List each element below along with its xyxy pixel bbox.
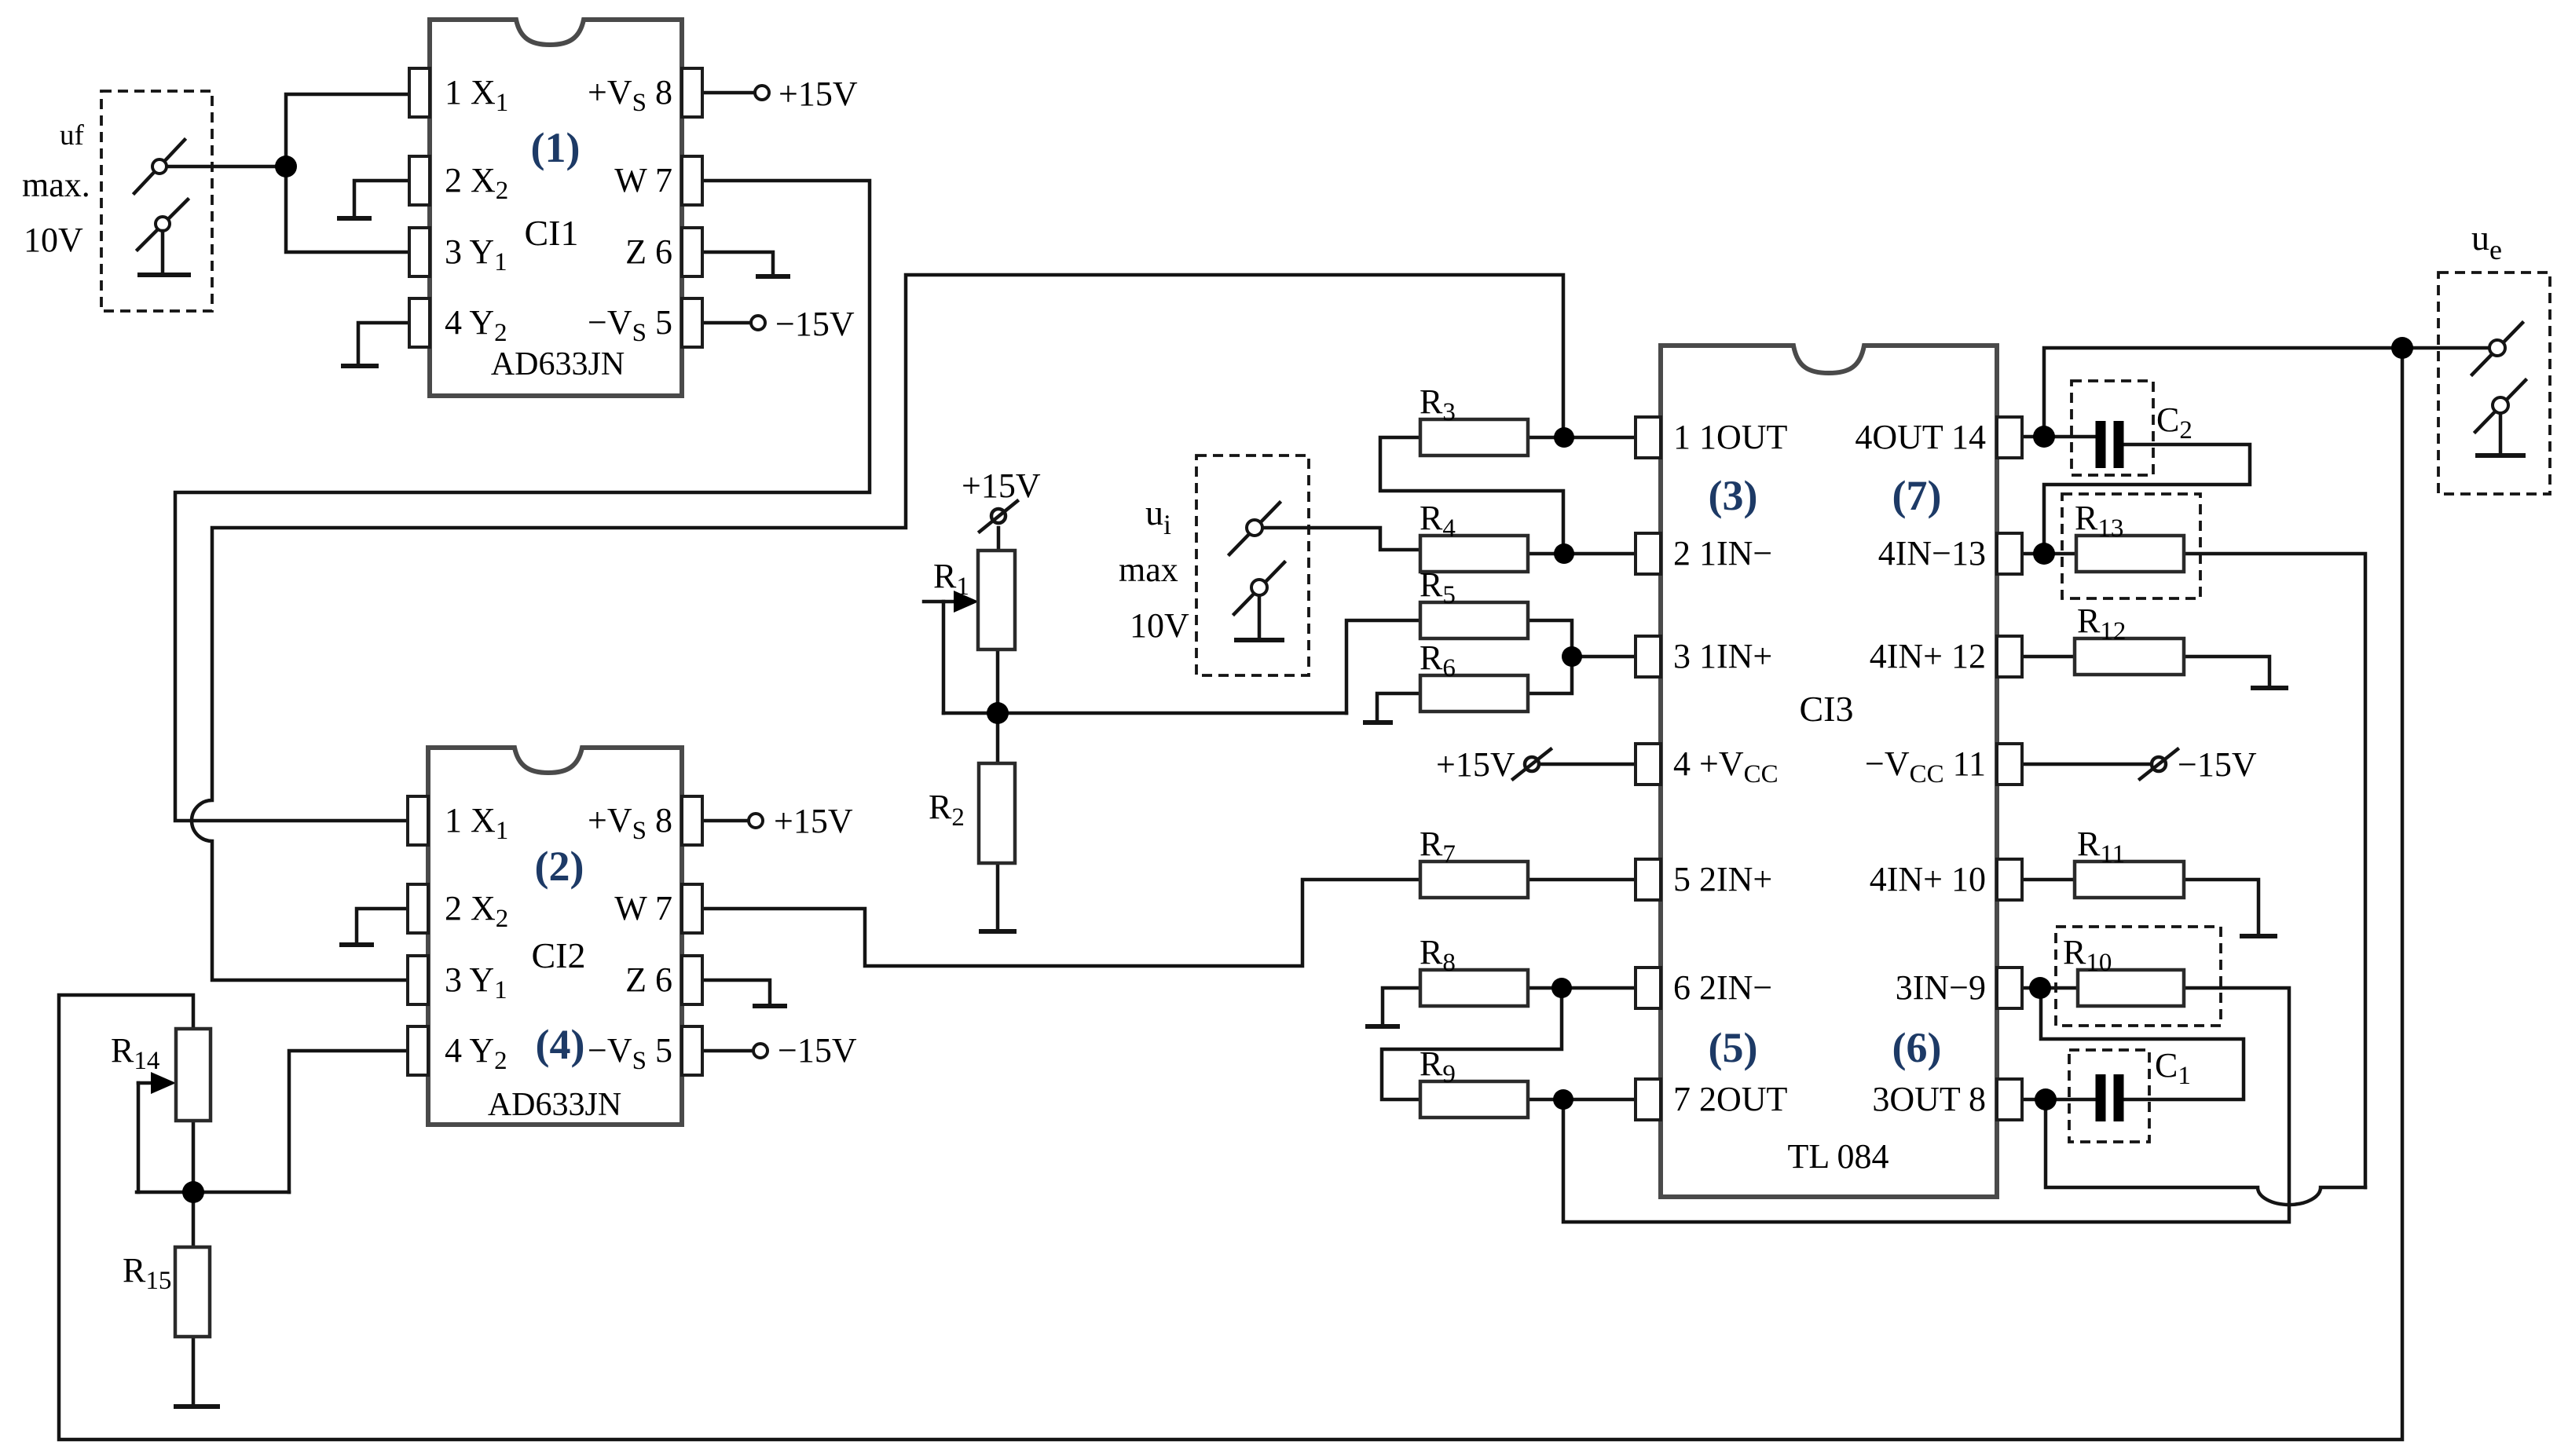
svg-text:(1): (1) [531, 124, 581, 171]
svg-text:AD633JN: AD633JN [488, 1087, 621, 1123]
svg-text:3IN−9: 3IN−9 [1896, 968, 1986, 1007]
svg-text:5 2IN+: 5 2IN+ [1673, 860, 1772, 898]
svg-text:(7): (7) [1892, 472, 1942, 519]
svg-text:4IN+ 12: 4IN+ 12 [1870, 637, 1986, 675]
svg-text:CI3: CI3 [1800, 689, 1854, 729]
svg-text:(3): (3) [1709, 472, 1758, 519]
svg-text:Z 6: Z 6 [625, 232, 672, 271]
svg-text:10V: 10V [1130, 606, 1189, 645]
svg-text:+15V: +15V [962, 466, 1041, 505]
svg-text:7 2OUT: 7 2OUT [1673, 1080, 1788, 1118]
svg-text:6 2IN−: 6 2IN− [1673, 968, 1772, 1007]
svg-text:AD633JN: AD633JN [491, 346, 625, 382]
svg-text:(4): (4) [536, 1021, 585, 1068]
svg-text:TL 084: TL 084 [1787, 1137, 1888, 1176]
svg-text:−15V: −15V [775, 305, 855, 343]
svg-text:3 1IN+: 3 1IN+ [1673, 637, 1772, 675]
svg-text:10V: 10V [24, 221, 83, 259]
svg-text:2 1IN−: 2 1IN− [1673, 534, 1772, 573]
svg-text:max.: max. [22, 166, 90, 204]
svg-text:W 7: W 7 [614, 161, 672, 199]
svg-text:uf: uf [60, 119, 85, 152]
svg-text:max: max [1119, 551, 1178, 589]
svg-text:(5): (5) [1709, 1024, 1758, 1071]
svg-text:(6): (6) [1892, 1024, 1942, 1071]
svg-text:(2): (2) [535, 843, 584, 890]
svg-text:+15V: +15V [1436, 745, 1515, 784]
svg-text:W 7: W 7 [614, 889, 672, 927]
svg-text:+15V: +15V [778, 75, 858, 113]
svg-text:−15V: −15V [2178, 745, 2257, 784]
svg-text:CI1: CI1 [525, 213, 579, 253]
svg-text:+VS 8: +VS 8 [588, 73, 672, 117]
svg-text:−VS 5: −VS 5 [588, 303, 672, 347]
svg-text:Z 6: Z 6 [625, 960, 672, 999]
svg-text:4IN−13: 4IN−13 [1878, 534, 1986, 573]
svg-text:1 1OUT: 1 1OUT [1673, 418, 1788, 456]
svg-text:3OUT 8: 3OUT 8 [1872, 1080, 1986, 1118]
svg-text:+15V: +15V [774, 802, 853, 840]
svg-text:4IN+ 10: 4IN+ 10 [1870, 860, 1986, 898]
svg-text:−VS 5: −VS 5 [588, 1031, 672, 1075]
svg-text:+VS 8: +VS 8 [588, 801, 672, 845]
svg-text:−15V: −15V [778, 1031, 857, 1070]
svg-text:4OUT 14: 4OUT 14 [1855, 418, 1986, 456]
svg-text:CI2: CI2 [532, 935, 586, 975]
